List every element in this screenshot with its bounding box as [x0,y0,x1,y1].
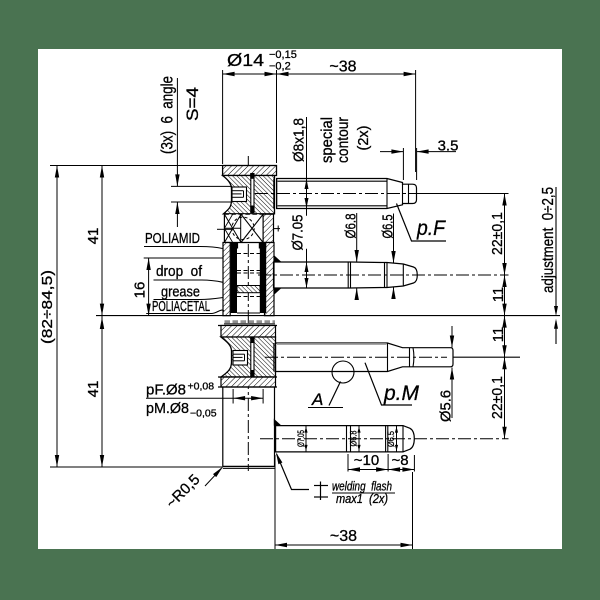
svg-text:Ø14: Ø14 [227,50,264,70]
svg-text:POLIACETAL: POLIACETAL [152,298,210,315]
pin bottom ring lines [346,426,348,452]
bottom face extension line [50,466,223,468]
weld triangle bottom pin top [274,419,282,426]
upper socket cavity hidden lines [237,253,260,255]
svg-text:Ø6.8: Ø6.8 [349,431,359,447]
svg-text:Ø6.5: Ø6.5 [386,431,396,447]
svg-text:~8: ~8 [391,452,408,469]
pin middle profile [274,262,418,288]
pin p.F centerline [255,193,417,195]
pin p.M socket strip [273,343,275,372]
svg-text:Ø6.5: Ø6.5 [380,215,397,239]
svg-text:−0,2: −0,2 [269,61,291,73]
upper socket section outer walls (hatched) [223,243,230,316]
svg-text:(2x): (2x) [355,126,372,151]
svg-text:adjustment 0÷2,5: adjustment 0÷2,5 [540,187,557,293]
svg-text:Ø6.8: Ø6.8 [343,214,360,239]
svg-text:S=4: S=4 [183,87,202,121]
dimension ~10 extension lines [347,454,349,472]
welding flash leader [277,454,309,490]
pin bottom centerline [260,438,509,440]
adjustment dimension arrows [555,187,557,312]
welding flash symbol [320,482,322,501]
svg-text:(82÷84,5): (82÷84,5) [39,270,56,344]
central rod upper (dark pin) [251,174,254,213]
svg-text:16: 16 [132,282,149,299]
svg-text:pM.Ø8: pM.Ø8 [146,400,189,417]
svg-text:22±0,1: 22±0,1 [489,212,506,255]
svg-text:41: 41 [85,381,102,398]
label p.F with leader [397,204,447,242]
pF/pM extension lines [232,389,234,404]
upper socket thick black insert walls [231,248,237,314]
dimension D14 extension lines [222,70,224,164]
dimension ~38 bottom extension lines [274,455,276,549]
dimension 3.5 extension lines [402,148,404,180]
dimension ~38 top extension line [415,70,417,172]
dimension line D8x1,8 / D7.05 vertical [306,117,308,216]
hex socket S=4 detail (lower) [233,351,248,366]
dimension D6.5 line [393,214,395,264]
label p.M with leader [365,363,412,405]
pin middle centerline [258,274,509,276]
gray dashed joint line at axis [225,320,276,323]
svg-text:(3x) 6 angle: (3x) 6 angle [159,76,177,154]
lower flange band upper (hatched) [218,325,277,327]
dimension 41 upper line [101,166,103,316]
bearing box outline [224,214,263,242]
dimension ~8 extension line [413,455,415,472]
extension line pM centerline right [453,356,520,358]
dimension D14 line with arrows [223,73,277,75]
grease hatched band inside socket [237,286,260,293]
svg-text:11: 11 [490,287,507,303]
pin p.M profile [276,343,454,372]
bottom tube of body [222,387,224,466]
dimension 16 line [148,258,150,316]
bearing box X-cross diagonals [241,214,263,242]
svg-text:3.5: 3.5 [438,138,459,155]
dimension 11 top line [504,275,506,316]
pin middle ring lines [347,262,349,288]
bearing right wall (hatched) [263,214,273,242]
svg-text:max1 (2x): max1 (2x) [336,491,388,506]
pin bottom profile [276,426,415,452]
pin p.M gray cap line [277,343,387,345]
svg-text:drop of: drop of [156,263,203,280]
dimension 41 lower line [101,316,103,467]
svg-text:A: A [311,390,323,409]
detail circle A on pin p.M [332,361,354,383]
label A with leader [329,382,341,406]
svg-text:11: 11 [490,327,507,343]
top face extension line [50,165,223,167]
svg-text:Ø7.05: Ø7.05 [290,215,307,251]
pin p.F inner lines [278,180,388,182]
svg-text:special: special [319,117,336,163]
svg-text:POLIAMID: POLIAMID [145,230,200,247]
pin p.M ring lines [387,343,389,372]
svg-text:+0,08: +0,08 [188,381,215,393]
svg-text:p.F: p.F [416,217,446,240]
svg-text:pF.Ø8: pF.Ø8 [146,382,186,399]
dimension 16 extension line [144,257,223,259]
bearing centerline tick left [217,228,233,230]
bearing ball (dashed circle) [232,217,254,239]
dimension D5.6 line [451,326,453,348]
dimension 22+-0,1 bottom line [504,357,506,439]
dimension (82/84,5) line [56,166,58,468]
pin p.F outer profile (top pin) [277,179,417,209]
top flange of body (hatched) [223,166,277,176]
svg-text:contour: contour [335,117,352,163]
dimension ~38 bottom line [275,544,413,546]
central rod lower (dark pin) [251,338,254,377]
dimension ~10 line [348,469,388,471]
svg-text:−0,15: −0,15 [269,49,297,61]
svg-text:22±0,1: 22±0,1 [489,376,506,419]
dimension 3.5 line with outside arrows [380,151,403,153]
hex leader line 6 angle [176,78,178,186]
weld triangle middle pin top [274,255,282,262]
weld triangle middle pin bottom [274,288,282,295]
svg-text:Ø8x1,8: Ø8x1,8 [291,118,308,162]
dimension 22+-0,1 top line [504,194,506,276]
pin p.M centerline [265,356,447,358]
svg-text:p.M: p.M [383,382,419,405]
svg-text:Ø5.6: Ø5.6 [439,390,455,422]
svg-text:~38: ~38 [330,528,357,545]
lower waist section (hatched) [221,337,276,377]
svg-text:−0,05: −0,05 [190,408,217,420]
main horizontal axis line [96,315,560,317]
bearing centerline tick right [274,228,280,230]
hex socket extension lines [171,185,232,187]
dimension 11 bottom line [504,316,506,358]
dimension ~38 top line [277,73,416,75]
lower flange band bottom (hatched) [221,377,276,387]
pF/pM dimension line and arrows [146,397,233,399]
svg-text:~38: ~38 [329,59,356,76]
white drawing sheet [38,49,562,549]
upper waist section of body (hatched) [223,176,275,214]
vertical centerline of body [247,156,249,471]
pin p.F socket strip [273,179,275,209]
dimension D6.8 line [356,213,358,262]
dimension ~8 line [388,469,414,471]
svg-text:~10: ~10 [354,452,379,469]
svg-text:41: 41 [85,228,102,245]
hex socket S=4 detail (upper) [232,187,247,202]
bottom face double line [223,465,275,467]
